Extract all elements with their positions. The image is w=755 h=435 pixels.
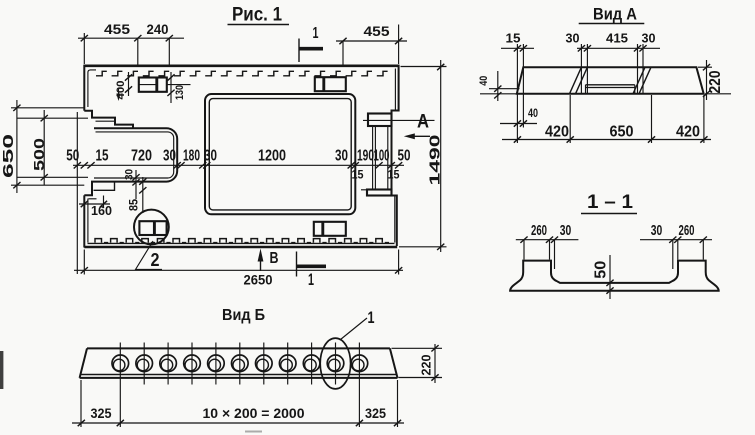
svg-text:30: 30 [204, 147, 217, 164]
svg-text:415: 415 [606, 31, 628, 45]
svg-text:100: 100 [374, 147, 390, 164]
svg-text:325: 325 [91, 406, 112, 421]
svg-text:1: 1 [308, 270, 314, 289]
svg-text:500: 500 [32, 138, 48, 171]
svg-text:10 × 200 = 2000: 10 × 200 = 2000 [203, 406, 305, 421]
svg-text:85: 85 [129, 198, 141, 211]
svg-text:30: 30 [124, 169, 136, 180]
svg-text:2650: 2650 [244, 273, 273, 288]
svg-text:2: 2 [151, 250, 160, 270]
svg-text:190: 190 [357, 147, 374, 164]
svg-text:220: 220 [707, 70, 724, 93]
svg-text:325: 325 [365, 406, 386, 421]
svg-text:Рис. 1: Рис. 1 [232, 5, 282, 26]
svg-text:50: 50 [398, 147, 411, 164]
svg-text:420: 420 [676, 123, 700, 140]
svg-text:130: 130 [174, 85, 186, 100]
svg-text:650: 650 [610, 123, 634, 140]
svg-text:15: 15 [388, 170, 401, 182]
svg-text:260: 260 [531, 223, 547, 239]
svg-text:30: 30 [566, 31, 580, 45]
svg-text:15: 15 [352, 170, 365, 182]
svg-text:30: 30 [642, 31, 656, 45]
svg-text:720: 720 [131, 147, 152, 164]
svg-text:180: 180 [183, 147, 200, 164]
svg-text:50: 50 [593, 261, 610, 279]
svg-text:1490: 1490 [428, 135, 444, 186]
svg-text:1: 1 [313, 25, 319, 42]
svg-text:40: 40 [528, 108, 538, 120]
svg-text:160: 160 [91, 203, 112, 218]
svg-text:420: 420 [545, 123, 569, 140]
svg-text:260: 260 [679, 223, 695, 239]
svg-text:455: 455 [104, 22, 131, 37]
svg-text:30: 30 [335, 147, 348, 164]
svg-text:240: 240 [147, 22, 169, 37]
svg-text:30: 30 [560, 223, 572, 239]
svg-text:1200: 1200 [258, 147, 286, 164]
svg-text:40: 40 [478, 76, 490, 86]
svg-text:В: В [270, 250, 279, 267]
svg-text:15: 15 [506, 31, 521, 45]
svg-text:15: 15 [96, 147, 109, 164]
svg-text:650: 650 [1, 134, 17, 178]
svg-text:А: А [417, 112, 429, 133]
svg-text:400: 400 [115, 81, 127, 100]
svg-text:Вид Б: Вид Б [222, 307, 265, 324]
svg-text:30: 30 [651, 223, 663, 239]
svg-text:455: 455 [364, 24, 391, 39]
svg-text:1 – 1: 1 – 1 [587, 192, 633, 213]
svg-text:30: 30 [163, 147, 176, 164]
svg-text:Вид А: Вид А [593, 5, 637, 24]
svg-text:220: 220 [419, 354, 433, 375]
svg-text:1: 1 [368, 308, 375, 327]
